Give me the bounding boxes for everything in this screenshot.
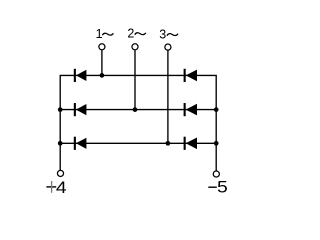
terminal -5 (DC output circle) bbox=[213, 171, 219, 177]
wire: phase 2 terminal lead bbox=[134, 50, 136, 109]
svg-text:1: 1 bbox=[96, 27, 103, 41]
wire: row 1 horizontal (phase 1 bridge arm) bbox=[60, 74, 217, 76]
svg-text:2: 2 bbox=[127, 27, 134, 41]
wire: row 2 horizontal (phase 2 bridge arm) bbox=[60, 109, 217, 111]
label: terminal 2~ bbox=[127, 27, 145, 41]
label: terminal -5 bbox=[208, 178, 228, 196]
junction: left bus / row 3 bbox=[58, 141, 63, 146]
wire: right DC bus (-) vertical bbox=[215, 75, 217, 170]
diode D1 (row 1, cathode to + bus) bbox=[74, 69, 87, 82]
diode D5 (row 2, anode to - bus) bbox=[184, 103, 197, 116]
junction: phase 1 tap on row 1 bbox=[100, 73, 105, 78]
junction: right bus / row 3 bbox=[214, 141, 219, 146]
diode D3 (row 3, cathode to + bus) bbox=[74, 137, 87, 150]
diode D6 (row 3, anode to - bus) bbox=[184, 137, 197, 150]
label: terminal 1~ bbox=[96, 27, 114, 41]
svg-text:4: 4 bbox=[56, 179, 67, 197]
wire: phase 1 terminal lead bbox=[101, 50, 103, 75]
terminal 3~ (AC input circle) bbox=[165, 44, 171, 50]
junction: phase 3 tap on row 3 bbox=[166, 141, 171, 146]
label: terminal 3~ bbox=[159, 27, 178, 41]
wire: row 3 horizontal (phase 3 bridge arm) bbox=[60, 142, 217, 144]
junction: right bus / row 2 bbox=[214, 107, 219, 112]
svg-text:3: 3 bbox=[159, 27, 166, 41]
wire: left DC bus (+) vertical bbox=[59, 75, 61, 170]
wire: phase 3 terminal lead bbox=[167, 51, 169, 144]
junction: phase 2 tap on row 2 bbox=[133, 107, 138, 112]
terminal 2~ (AC input circle) bbox=[132, 44, 138, 50]
diode D2 (row 2, cathode to + bus) bbox=[74, 103, 87, 116]
svg-text:5: 5 bbox=[217, 178, 228, 196]
terminal +4 (DC output circle) bbox=[57, 170, 63, 176]
label: terminal +4 bbox=[46, 179, 66, 197]
terminal 1~ (AC input circle) bbox=[99, 44, 105, 50]
diode D4 (row 1, anode to - bus) bbox=[184, 69, 197, 82]
junction: left bus / row 2 bbox=[58, 107, 63, 112]
